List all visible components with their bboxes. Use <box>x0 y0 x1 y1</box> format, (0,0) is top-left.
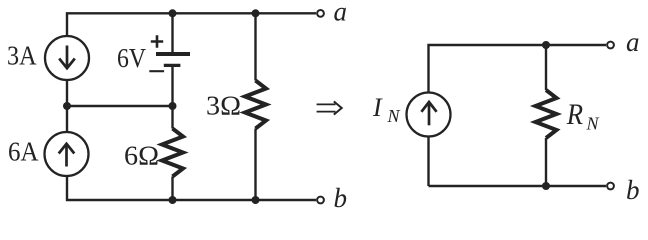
svg-text:6A: 6A <box>8 137 39 167</box>
svg-text:N: N <box>387 106 401 126</box>
svg-text:3A: 3A <box>7 41 37 71</box>
svg-text:I: I <box>372 93 383 122</box>
svg-text:b: b <box>626 175 640 205</box>
svg-text:6Ω: 6Ω <box>124 141 159 171</box>
svg-text:N: N <box>586 114 600 134</box>
svg-text:a: a <box>334 0 348 27</box>
svg-text:6V: 6V <box>117 43 146 73</box>
svg-text:a: a <box>626 27 640 57</box>
svg-text:b: b <box>334 183 348 213</box>
svg-text:3Ω: 3Ω <box>206 91 241 121</box>
svg-text:R: R <box>566 98 583 131</box>
